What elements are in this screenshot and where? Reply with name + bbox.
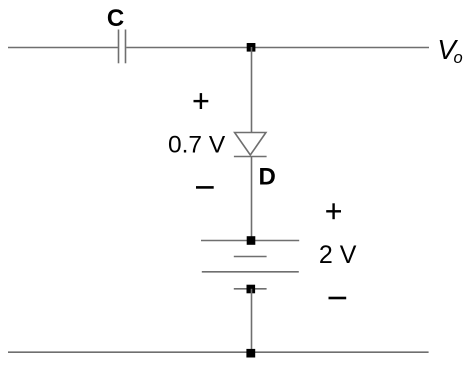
wire top-left horizontal (8, 47, 118, 49)
wire bottom horizontal (8, 351, 429, 353)
wire vertical node to diode (251, 47, 253, 133)
minus sign diode (196, 186, 214, 189)
node on battery plate 4 (247, 285, 256, 294)
capacitor C left plate (118, 30, 120, 64)
battery long plate 3 (202, 271, 299, 273)
svg-text:0.7 V: 0.7 V (168, 131, 226, 158)
wire vertical diode to battery (251, 157, 253, 241)
diode D cathode bar (234, 156, 267, 158)
battery short plate 2 (234, 256, 267, 258)
svg-text:D: D (259, 164, 276, 191)
svg-text:2 V: 2 V (319, 241, 357, 269)
node bottom junction (246, 349, 255, 358)
wire vertical battery to bottom (251, 289, 253, 353)
wire top-right horizontal (126, 47, 429, 49)
plus sign diode (194, 93, 209, 109)
minus sign battery (329, 297, 347, 300)
svg-text:o: o (454, 49, 463, 67)
plus sign battery (326, 203, 341, 219)
svg-text:C: C (107, 5, 124, 32)
capacitor C right plate (125, 30, 127, 64)
diode D triangle (235, 133, 266, 156)
battery long plate 1 (201, 240, 299, 242)
node on battery plate 1 (247, 236, 256, 245)
node top junction (247, 43, 256, 52)
battery short plate 4 (234, 288, 267, 290)
